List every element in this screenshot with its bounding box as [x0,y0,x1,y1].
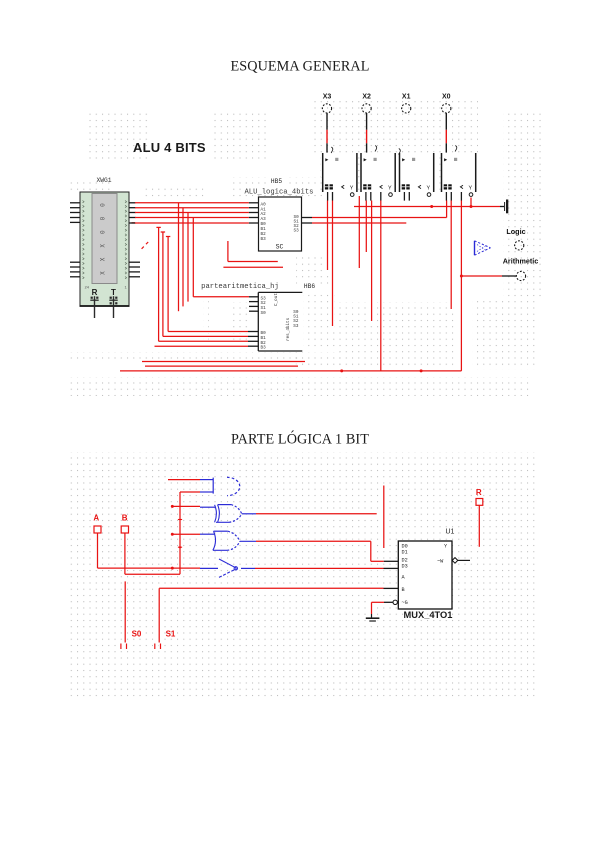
svg-text:0: 0 [100,203,107,207]
svg-text:~W: ~W [437,559,444,565]
svg-text:MUX_4TO1: MUX_4TO1 [404,610,453,620]
svg-text:B: B [402,587,405,593]
svg-text:C_out: C_out [274,293,279,306]
svg-text:ALU_logica_4bits: ALU_logica_4bits [244,189,313,197]
svg-text:R: R [92,288,98,297]
svg-text:HB5: HB5 [271,178,282,185]
svg-text:PARTE LÓGICA 1 BIT: PARTE LÓGICA 1 BIT [231,431,369,448]
svg-text:Arithmetic: Arithmetic [503,256,539,265]
svg-text:T: T [111,288,116,297]
svg-text:HB6: HB6 [304,283,315,290]
svg-text:Y: Y [350,185,354,191]
svg-text:S1: S1 [166,630,176,639]
svg-text:S0: S0 [132,630,142,639]
svg-text:SC: SC [276,244,284,251]
svg-text:XWG1: XWG1 [96,177,111,184]
svg-text:0: 0 [100,216,107,220]
svg-text:S0: S0 [261,311,267,316]
svg-text:X3: X3 [323,94,332,101]
svg-text:24: 24 [85,287,90,291]
svg-text:D1: D1 [402,550,408,556]
svg-text:ESQUEMA GENERAL: ESQUEMA GENERAL [230,59,369,75]
svg-text:B3: B3 [261,346,267,351]
svg-text:X: X [100,257,107,261]
svg-text:B: B [122,514,128,523]
svg-text:D3: D3 [402,564,408,570]
svg-text:X: X [100,244,107,248]
svg-text:Y: Y [388,185,392,191]
svg-text:U1: U1 [446,529,455,536]
svg-text:R: R [476,488,482,497]
svg-text:Logic: Logic [506,227,525,236]
svg-text:partearitmetica_hj: partearitmetica_hj [201,283,279,291]
svg-text:ALU 4 BITS: ALU 4 BITS [133,140,206,155]
svg-text:X: X [100,271,107,275]
svg-text:S3: S3 [293,324,299,329]
svg-text:A: A [93,514,99,523]
svg-text:S3: S3 [294,229,300,234]
svg-text:res_4bits: res_4bits [286,317,291,341]
svg-text:Y: Y [427,185,431,191]
svg-text:B3: B3 [261,237,267,242]
svg-text:X1: X1 [402,94,411,101]
svg-text:0: 0 [100,230,107,234]
svg-text:~G: ~G [402,600,408,606]
svg-text:X2: X2 [362,94,371,101]
svg-text:X0: X0 [442,94,451,101]
svg-text:Y: Y [469,185,473,191]
